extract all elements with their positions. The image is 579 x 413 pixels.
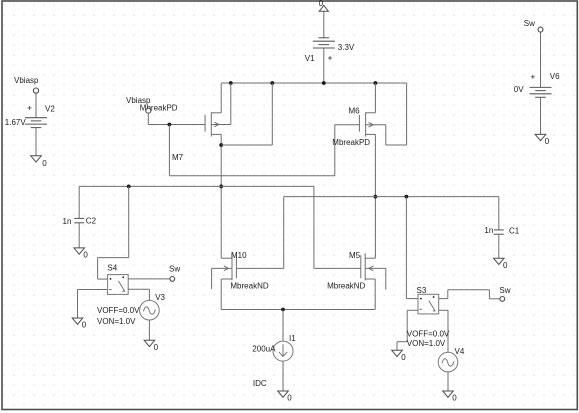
voltage source V2 1.67V [5,105,56,128]
switch S3 (Sbreak) [417,286,439,314]
wire V2 top [35,93,37,118]
svg-text:0V: 0V [514,85,524,94]
svg-text:VOFF=0.0V: VOFF=0.0V [407,330,450,339]
wire M6 source to rail [374,83,376,113]
wire I1 bottom lead [282,361,284,391]
junction rail / M7 drain feedback [270,81,274,85]
svg-text:VON=1.0V: VON=1.0V [407,339,446,348]
capacitor C1 1n [484,197,519,259]
wire common source line [221,309,375,311]
svg-text:M6: M6 [349,107,361,116]
wire M7 bulk to rail [230,83,232,125]
junction M7 gate / bias net [168,123,172,127]
svg-text:1n: 1n [484,226,493,235]
voltage source V1 3.3V [305,38,355,63]
wire S3 control to ground [397,310,418,350]
svg-text:C2: C2 [86,217,97,226]
svg-text:MbreakND: MbreakND [230,282,268,291]
wire M7 drain column [220,134,222,258]
current source I1 200uA IDC [252,334,296,388]
wire S4 control to ground [78,290,108,319]
wire VDD rail [221,82,406,84]
svg-text:VON=1.0V: VON=1.0V [97,317,136,326]
junction M7 drain / feedback [219,143,223,147]
node Sw terminal (V6 top) [524,19,543,32]
ground below S3 control [392,350,407,362]
svg-text:0: 0 [42,159,47,168]
svg-text:C1: C1 [509,227,520,236]
transistor M6 (PMOS MbreakPD) [332,107,386,147]
ground below V4 [443,391,458,403]
svg-text:3.3V: 3.3V [338,43,355,52]
svg-text:M7: M7 [172,153,184,162]
voltage source V4 [407,330,465,372]
wire V1 top to ground [323,11,325,38]
svg-text:1n: 1n [63,217,72,226]
capacitor C2 1n [63,186,97,248]
wire S3 column [406,197,418,299]
svg-text:0: 0 [545,137,550,146]
svg-text:0: 0 [83,251,88,260]
junction M6 drain / net C [374,195,378,199]
transistor M10 (NMOS MbreakND) [212,251,269,291]
ground below I1 [278,391,293,403]
wire net B horizontal [79,185,314,187]
svg-text:M10: M10 [231,251,247,260]
wire net B to S4 [98,186,129,279]
junction source line / I1 [281,308,285,312]
ground below V3 [144,340,159,352]
node Sw terminal (right) [499,286,510,301]
voltage source V6 0V [514,72,560,97]
svg-text:0: 0 [401,353,406,362]
wire V1 to VDD rail [323,48,325,83]
junction net C / S3 branch [405,195,409,199]
wire S3 to Sw terminal (right) [439,290,500,299]
node Vbiasp terminal (left) [14,76,39,93]
svg-text:0: 0 [503,261,508,270]
wire net C horizontal [284,196,499,198]
junction rail / V1 [322,81,326,85]
svg-text:1.67V: 1.67V [5,118,27,127]
ground 0 (rotated, above V1) [319,0,329,11]
transistor M5 (NMOS MbreakND) [327,251,386,291]
wire S3 to V4 [439,310,448,352]
wire V6 bottom [540,97,542,134]
ground below C1 [494,258,509,270]
ground below V2 [31,156,48,168]
wire V6 top [540,32,542,87]
junction rail / M6 source [374,81,378,85]
svg-text:0: 0 [82,321,87,330]
svg-text:V2: V2 [45,105,55,114]
node Sw terminal (left) [169,265,180,282]
ground below V6 [535,134,550,146]
wire I1 top lead [282,310,284,342]
wire bias net horizontal [169,175,334,177]
wire net C to M10 gate [236,197,283,269]
svg-text:V1: V1 [305,54,315,63]
svg-text:0: 0 [287,394,292,403]
svg-text:0: 0 [154,343,159,352]
svg-text:M5: M5 [349,251,361,260]
ground below C2 [74,248,89,260]
svg-text:Sw: Sw [499,286,510,295]
svg-text:V6: V6 [550,72,560,81]
svg-text:IDC: IDC [253,379,267,388]
svg-text:V3: V3 [155,293,165,302]
svg-text:MbreakND: MbreakND [327,282,365,291]
svg-text:S3: S3 [417,286,427,295]
junction net B / C2+S4 branch [127,185,131,189]
wire V2 bottom [35,128,37,156]
node Vbiasp terminal (M7 gate) [126,96,178,113]
wire Vbiasp to M7 gate [148,113,205,124]
wire bias net riser [168,125,170,176]
voltage source V3 [97,293,166,326]
wire V3 to ground [148,320,150,340]
wire S4 to Sw terminal [128,278,170,280]
wire V4 to ground [447,372,449,391]
junction drain column / net B [219,185,223,189]
switch S4 (Sbreak) [107,263,128,294]
svg-text:I1: I1 [289,334,296,343]
wire bias net to M6 gate [335,125,360,176]
wire M10 source down [220,279,222,310]
junction rail / M7 bulk [229,81,233,85]
svg-text:0: 0 [452,394,457,403]
ground below S4 control [72,318,87,330]
svg-text:VOFF=0.0V: VOFF=0.0V [97,306,140,315]
wire M5 source down [374,279,376,310]
svg-text:Vbiasp: Vbiasp [14,76,39,85]
svg-text:S4: S4 [107,263,117,272]
transistor M7 (PMOS MbreakPD) [172,112,231,162]
svg-text:200uA: 200uA [252,345,276,354]
svg-text:Sw: Sw [169,265,180,274]
svg-text:Sw: Sw [524,19,535,28]
wire M6 drain column [374,134,376,258]
wire net B to M5 gate [314,186,361,268]
wire M6 bulk to rail [386,83,407,145]
wire S4 to V3 [128,289,149,300]
svg-text:MbreakPD: MbreakPD [332,138,370,147]
wire drain feedback to rail [221,83,272,145]
svg-text:V4: V4 [455,347,465,356]
wire M7 source to rail [220,83,222,113]
